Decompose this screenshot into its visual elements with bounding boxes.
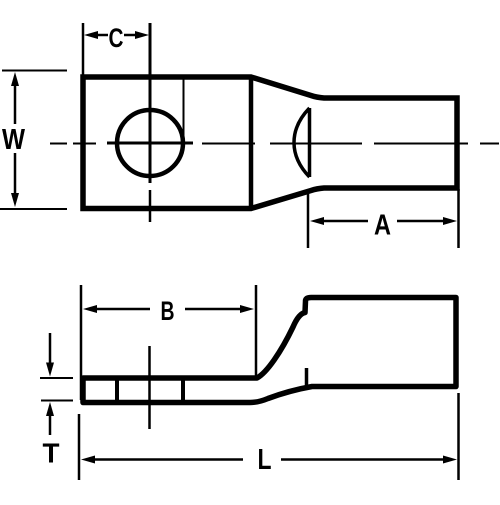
dimension B: right extension line xyxy=(255,285,258,376)
dimension A: left extension line xyxy=(307,190,310,248)
dimension B: dimension line + arrows xyxy=(93,308,150,311)
bolt hole circle xyxy=(117,110,183,176)
dimension B: left extension line xyxy=(80,285,83,400)
hole right tangent line xyxy=(183,77,185,143)
barrel weld seam tick xyxy=(305,368,309,386)
lug body outline, side view xyxy=(83,298,456,403)
barrel mouth crescent xyxy=(294,108,310,177)
dimension T: upper extension line xyxy=(40,377,73,379)
svg-text:C: C xyxy=(109,23,124,53)
dimension A: dimension line + arrows xyxy=(318,220,368,223)
dimension W: bottom extension line xyxy=(0,208,67,210)
svg-text:W: W xyxy=(2,124,26,156)
dimension W: top extension line xyxy=(2,70,67,72)
dimension C: dimension line + arrows xyxy=(93,34,108,37)
dimension W: upper leader + arrow xyxy=(14,80,17,124)
hole vertical centerline (long) xyxy=(149,23,152,183)
dimension L: left extension line xyxy=(78,414,81,480)
dimension T: lower extension line xyxy=(41,400,73,402)
dimension W: lower leader + arrow xyxy=(14,153,17,200)
tongue division line 1 xyxy=(115,378,119,402)
hole vertical centerline (lower dash) xyxy=(149,190,152,222)
tongue division line 2 xyxy=(181,378,185,402)
dimension T: lower leader + arrow xyxy=(49,410,52,435)
dimension C: left extension line xyxy=(82,23,85,77)
pad/taper boundary vertical line xyxy=(249,77,254,209)
horizontal centerline dashes, top view xyxy=(50,143,499,145)
svg-text:B: B xyxy=(161,296,175,326)
tongue tall crosshair line xyxy=(148,346,151,429)
dimension T: upper leader + arrow xyxy=(49,333,52,368)
dimension A: right extension line xyxy=(457,189,460,248)
dimension L: dimension line + arrows xyxy=(92,458,243,461)
svg-text:L: L xyxy=(258,444,272,476)
dimension L: right extension line xyxy=(457,393,460,480)
hole horizontal crosshair xyxy=(107,142,193,145)
svg-text:T: T xyxy=(43,438,60,469)
svg-text:A: A xyxy=(374,210,391,242)
lug body outline (pad + taper + barrel), top view xyxy=(83,77,457,209)
